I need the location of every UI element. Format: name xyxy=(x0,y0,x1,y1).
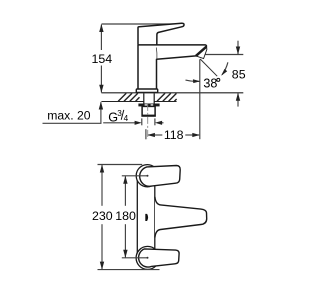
extension line top of 154 xyxy=(102,23,180,25)
svg-text:118: 118 xyxy=(164,128,184,142)
extension 230 top xyxy=(98,164,143,166)
svg-text:180: 180 xyxy=(115,209,136,223)
bottom lever (top view) xyxy=(139,249,180,267)
extension 230 bottom xyxy=(98,269,160,271)
spout (top view) xyxy=(155,197,207,238)
aerator notch mark xyxy=(145,214,148,221)
bottom mounting circle xyxy=(136,246,159,269)
faucet lever handle (side view) xyxy=(138,23,184,45)
G3/4 extension ticks xyxy=(141,118,143,125)
118 left extension tick xyxy=(145,129,147,139)
svg-text:3: 3 xyxy=(117,109,122,118)
38 degree left arc arrow xyxy=(186,80,200,81)
svg-text:230: 230 xyxy=(92,209,113,223)
countertop deck top line (also 85 lower extension) xyxy=(101,92,243,94)
dimension 85 arrows xyxy=(236,41,240,107)
deck bottom line left xyxy=(101,101,143,103)
body bar (top view) xyxy=(137,168,155,266)
dimension 118 xyxy=(147,133,199,137)
extension 180 bottom xyxy=(122,257,148,259)
water stream 38 degree line xyxy=(200,59,217,76)
deck hatching xyxy=(118,93,176,101)
svg-text:4: 4 xyxy=(124,114,129,123)
nut bottom thick edge xyxy=(142,115,156,117)
max 20 leader xyxy=(43,102,101,123)
top mounting circle xyxy=(136,165,158,187)
faucet body and spout top line xyxy=(138,45,207,89)
right extension line from spout outlet xyxy=(199,59,201,139)
svg-text:38: 38 xyxy=(203,76,217,90)
nut body xyxy=(142,106,155,116)
max 20 up arrow xyxy=(99,102,103,110)
dimension 85 top extension xyxy=(206,54,244,56)
deck bottom line right xyxy=(154,101,176,103)
extension 180 top xyxy=(122,175,148,177)
aerator face xyxy=(196,47,207,59)
dimension 180 xyxy=(123,176,127,258)
svg-text:max. 20: max. 20 xyxy=(47,109,91,123)
center line of shank xyxy=(147,104,149,139)
svg-text:154: 154 xyxy=(91,52,112,66)
38 degree right arc arrow xyxy=(222,62,228,75)
dimension 154 xyxy=(99,24,103,93)
mounting nut flange xyxy=(138,104,159,107)
spout aerator cut edge xyxy=(196,47,207,56)
G3/4 right arrow xyxy=(160,122,164,124)
top lever (top view) xyxy=(140,166,181,187)
base plate xyxy=(136,89,157,92)
spout root curve xyxy=(155,48,158,60)
dimension 230 xyxy=(100,165,104,270)
shank tube through deck xyxy=(144,93,154,103)
G3/4 leader and left arrow xyxy=(103,122,136,124)
svg-text:85: 85 xyxy=(232,68,246,82)
